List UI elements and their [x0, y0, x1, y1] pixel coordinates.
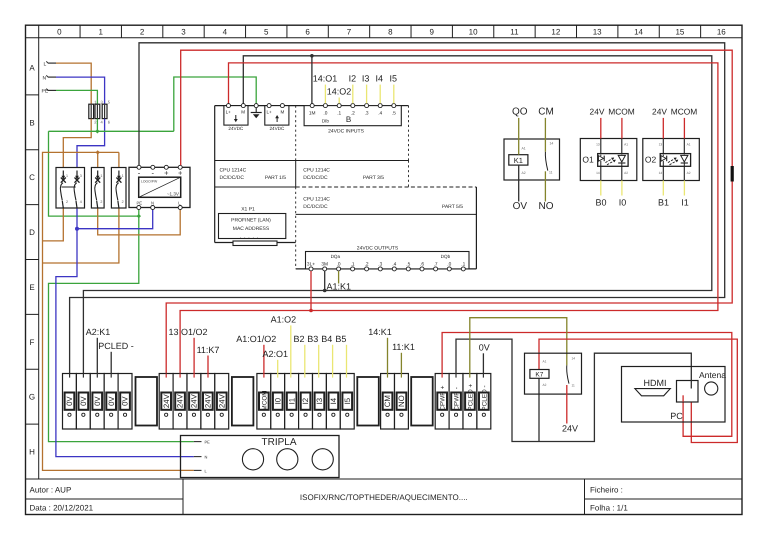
label 14:K1 with olive lead to CM terminal: [368, 327, 392, 374]
socket outlet 1: [242, 449, 263, 470]
terminal spacer: [232, 377, 254, 426]
wire blue down to TRIPLA N: [56, 229, 194, 457]
opto module O2: [643, 139, 700, 181]
svg-text:L: L: [44, 62, 47, 68]
wire brown bus to switches Q2 Q3 and left riser to TRIPLA L: [43, 152, 194, 470]
svg-text:24V: 24V: [176, 393, 185, 408]
label I4 with yellow stub: [375, 74, 383, 104]
svg-text:PART 3/5: PART 3/5: [363, 175, 384, 181]
svg-text:B: B: [346, 115, 351, 124]
wire N blue to fuse F3: [56, 77, 105, 104]
svg-text:MCOM: MCOM: [671, 107, 698, 117]
wire brown switch Q1 output to riser: [43, 208, 64, 241]
label NO with olive lead from K1 contact 11: [539, 171, 554, 212]
label QO with olive lead to K1 A1: [512, 107, 528, 155]
label MCOM with red lead to O2: [671, 107, 698, 139]
svg-text:DQa: DQa: [331, 254, 341, 259]
svg-text:14: 14: [634, 28, 643, 37]
svg-text:A2: A2: [624, 171, 628, 175]
wire red CPWR+ loop to PC connector: [442, 333, 732, 437]
junction blue: [75, 227, 79, 231]
svg-text:24V: 24V: [562, 424, 578, 434]
wire red PLC 3L+ drop to 24V rail: [310, 271, 312, 311]
svg-text:Autor : AUP: Autor : AUP: [30, 485, 72, 494]
socket outlet 3: [312, 449, 333, 470]
svg-text:8: 8: [388, 28, 393, 37]
node L input label: [44, 61, 57, 67]
label I3 with yellow stub: [362, 74, 370, 104]
label I2 with yellow stub: [349, 74, 357, 104]
opto module O1: [580, 139, 637, 181]
svg-text:13: 13: [659, 142, 663, 146]
wire red PSU plus loop to 24V terminal 1: [166, 50, 732, 373]
svg-text:4: 4: [80, 200, 82, 204]
svg-text:I5: I5: [389, 74, 397, 84]
wire L brown to fuse F1: [56, 63, 91, 104]
svg-text:PCLED -: PCLED -: [481, 385, 488, 410]
svg-text:16: 16: [717, 28, 726, 37]
svg-text:DC/DC/DC: DC/DC/DC: [303, 204, 328, 210]
svg-text:6: 6: [305, 28, 310, 37]
svg-text:B0: B0: [595, 198, 606, 208]
svg-text:A2: A2: [522, 171, 526, 175]
label B4 with yellow lead to I4 terminal: [321, 334, 332, 374]
svg-text:A2:K1: A2:K1: [86, 327, 111, 337]
node PE input label: [42, 89, 57, 95]
node N input label: [43, 75, 57, 81]
svg-text:B2: B2: [293, 334, 304, 344]
svg-text:PCLED +: PCLED +: [467, 384, 474, 411]
fuse F3: [102, 100, 111, 125]
svg-text:I4: I4: [329, 397, 338, 404]
svg-text:B1: B1: [658, 198, 669, 208]
svg-text:N: N: [205, 455, 208, 460]
svg-text:3: 3: [80, 174, 82, 178]
svg-text:14:O1: 14:O1: [313, 74, 338, 84]
label I0 with yellow lead from O1: [619, 181, 627, 208]
svg-text:OV: OV: [513, 201, 528, 212]
svg-text:15: 15: [675, 28, 684, 37]
svg-text:PE: PE: [205, 440, 211, 445]
svg-text:DIb: DIb: [322, 119, 330, 124]
svg-text:2: 2: [66, 200, 68, 204]
antenna circle: [705, 382, 718, 395]
svg-text:11:K7: 11:K7: [197, 345, 220, 355]
svg-text:11: 11: [572, 384, 576, 388]
svg-text:PC: PC: [670, 411, 683, 421]
wire brown F1 out to switch Q1 pole 1: [63, 119, 91, 168]
svg-text:TRIPLA: TRIPLA: [261, 437, 296, 448]
svg-text:14: 14: [572, 357, 576, 361]
svg-text:11: 11: [510, 28, 519, 37]
label B3 with yellow lead to I3 terminal: [307, 334, 318, 374]
label B2 with yellow lead to I2 terminal: [293, 334, 304, 374]
svg-text:A2:O1: A2:O1: [263, 349, 289, 359]
svg-text:B: B: [29, 118, 34, 127]
svg-text:PCLED -: PCLED -: [98, 341, 134, 351]
svg-text:L+: L+: [267, 110, 273, 115]
label OV with black lead from K1 A2: [513, 165, 528, 212]
svg-text:1M: 1M: [309, 111, 316, 117]
terminal spacer: [357, 377, 379, 426]
svg-text:.4: .4: [378, 111, 382, 117]
svg-text:.1: .1: [337, 111, 341, 117]
switch Q3 breaker: [111, 168, 126, 209]
svg-text:24V: 24V: [590, 107, 605, 117]
wire stubs into terminal tops: [70, 374, 484, 378]
svg-text:HDMI: HDMI: [644, 378, 667, 388]
svg-text:A1:K1: A1:K1: [327, 282, 352, 292]
svg-text:14:O2: 14:O2: [327, 87, 352, 97]
svg-text:A1: A1: [624, 142, 628, 146]
svg-text:G: G: [29, 393, 35, 402]
svg-text:0V: 0V: [79, 396, 88, 406]
svg-text:.3: .3: [365, 111, 369, 117]
row letter column A-H: [26, 38, 39, 479]
label MCOM with red lead to O1: [608, 107, 635, 139]
svg-text:MAC ADDRESS: MAC ADDRESS: [233, 226, 270, 232]
wire brown switch Q2 output to PSU L: [98, 208, 181, 235]
label I1 with yellow lead from O2: [681, 181, 689, 208]
svg-text:4: 4: [223, 28, 228, 37]
svg-text:2: 2: [100, 200, 102, 204]
wire olive DQa.0 stub A1:K1: [327, 271, 352, 292]
svg-text:MCOM: MCOM: [608, 107, 635, 117]
svg-text:N: N: [43, 76, 47, 82]
svg-text:D: D: [29, 228, 35, 237]
label A2:O1 with yellow lead to I0 terminal: [263, 349, 289, 374]
svg-text:24V: 24V: [203, 393, 212, 408]
svg-text:14: 14: [596, 171, 600, 175]
junction brown at switch Q2 feed: [96, 150, 100, 154]
svg-text:14:K1: 14:K1: [368, 327, 392, 337]
svg-text:14: 14: [659, 171, 663, 175]
svg-text:NO: NO: [539, 201, 554, 212]
terminal strip X5 PC power group: [435, 374, 491, 430]
svg-text:A1:O2: A1:O2: [271, 315, 297, 325]
label 13 O1/O2 with red lead to 24V terminal 3: [168, 327, 207, 374]
svg-text:K1: K1: [514, 156, 523, 165]
svg-text:ISOFIX/RNC/TOPTHEDER/AQUECIMEN: ISOFIX/RNC/TOPTHEDER/AQUECIMENTO....: [300, 493, 468, 502]
svg-text:.0: .0: [323, 111, 327, 117]
svg-text:I1: I1: [681, 198, 689, 208]
svg-text:Data : 20/12/2021: Data : 20/12/2021: [30, 503, 94, 512]
junction red 3L+: [309, 309, 313, 313]
svg-text:CPU 1214C: CPU 1214C: [220, 168, 247, 174]
wire black PSU minus loop to 0V terminal 1: [70, 43, 725, 374]
svg-text:CPWR -: CPWR -: [453, 387, 460, 410]
svg-text:I0: I0: [619, 198, 627, 208]
PLC 24VDC INPUTS terminal box: [304, 104, 401, 135]
svg-text:5: 5: [264, 28, 269, 37]
label 24V with red lead to O2: [652, 107, 667, 139]
terminal spacer: [411, 377, 433, 426]
label B1 with yellow lead from O2: [658, 181, 669, 208]
wire black PLC 3M drop to 0V rail: [324, 271, 326, 291]
svg-text:QO: QO: [512, 107, 528, 118]
junction green at fuse F2 output: [95, 129, 99, 133]
svg-text:X1 P1: X1 P1: [241, 207, 255, 213]
svg-text:H: H: [29, 448, 35, 457]
PLC U1 CPU 1214C outline: [215, 106, 477, 269]
label A2:K1 with lead to 0V terminal 3: [86, 327, 111, 374]
svg-text:12: 12: [551, 28, 560, 37]
relay K1: [504, 139, 560, 180]
svg-text:24VDC INPUTS: 24VDC INPUTS: [328, 129, 365, 135]
PLC 24VDC power feed box 1: [224, 104, 248, 131]
svg-text:I5: I5: [343, 397, 352, 404]
svg-text:CPU 1214C: CPU 1214C: [303, 168, 330, 174]
terminal strip X4 CM NO group: [381, 374, 409, 430]
svg-text:B5: B5: [335, 334, 346, 344]
svg-text:PROFINET (LAN): PROFINET (LAN): [231, 218, 271, 224]
svg-text:2: 2: [140, 28, 145, 37]
svg-text:I0: I0: [273, 397, 282, 404]
svg-text:1: 1: [100, 174, 102, 178]
svg-text:11:K1: 11:K1: [392, 342, 415, 352]
svg-text:C: C: [29, 173, 35, 182]
splice bar on red riser: [731, 166, 734, 182]
svg-text:I4: I4: [375, 74, 383, 84]
wire red K7 A1 loop to PC connector: [539, 339, 737, 442]
label I5 with yellow stub: [389, 74, 397, 104]
svg-text:+: +: [178, 168, 183, 177]
PLC CPU part 3/5 text: [303, 168, 384, 181]
svg-text:E: E: [29, 283, 34, 292]
label CM with olive lead to K1 contact 14: [538, 107, 554, 152]
svg-text:A2: A2: [687, 171, 691, 175]
svg-text:24VDC: 24VDC: [269, 126, 284, 131]
label PCLED - with lead to 0V terminal 4: [98, 341, 134, 374]
label 14:O2 with yellow stub to input .1: [327, 87, 352, 104]
label B5 with yellow lead to I5 terminal: [335, 334, 346, 374]
svg-text:O1: O1: [582, 155, 594, 165]
power supply U2 24VDC: [129, 165, 190, 209]
terminal strip X2 24V group: [159, 374, 229, 430]
svg-text:24VDC OUTPUTS: 24VDC OUTPUTS: [357, 246, 399, 252]
socket outlet 2: [277, 449, 298, 470]
svg-text:DC/DC/DC: DC/DC/DC: [220, 175, 245, 181]
svg-text:PART 5/5: PART 5/5: [442, 204, 463, 210]
svg-text:MCOM: MCOM: [261, 390, 268, 410]
TRIPLA socket box: [181, 436, 340, 478]
wire blue F3 out to switch Q1 pole 3: [77, 119, 105, 168]
svg-text:CPWR +: CPWR +: [440, 385, 447, 410]
svg-text:13: 13: [593, 28, 602, 37]
fuse F1: [89, 100, 98, 125]
label 0V with black lead to PCLED - terminal: [479, 343, 490, 374]
svg-text:10: 10: [469, 28, 478, 37]
relay K7: [525, 353, 582, 394]
label B0 with yellow lead from O1: [595, 181, 606, 208]
svg-text:A1: A1: [543, 360, 547, 364]
svg-text:13 O1/O2: 13 O1/O2: [168, 327, 207, 337]
PLC PROFINET LAN port X1 P1: [219, 207, 286, 246]
wire olive PCLED+ loop to K7 contact 14: [470, 318, 567, 374]
PC box with HDMI and antenna: [622, 367, 727, 423]
svg-text:7: 7: [347, 28, 352, 37]
label 11:K7 with red lead to 24V terminal 4: [197, 345, 220, 374]
label 24V with red lead to O1: [590, 107, 605, 139]
svg-text:M: M: [281, 110, 285, 115]
label 24V with red lead to K7 contact 11: [562, 385, 578, 434]
PLC CPU part 5/5 text: [303, 197, 463, 210]
svg-text:LOGO!PW: LOGO!PW: [141, 179, 158, 183]
terminal strip X3 inputs group: [257, 374, 354, 430]
svg-text:DC/DC/DC: DC/DC/DC: [303, 175, 328, 181]
svg-text:A1:O1/O2: A1:O1/O2: [236, 334, 276, 344]
svg-text:+: +: [164, 168, 169, 177]
svg-text:M: M: [241, 110, 245, 115]
terminal spacer: [136, 377, 158, 426]
wire brown drop to switch Q3: [118, 152, 120, 167]
svg-text:Antena: Antena: [699, 370, 726, 380]
svg-text:CM: CM: [538, 107, 554, 118]
svg-text:.2: .2: [351, 111, 355, 117]
svg-text:24V: 24V: [217, 393, 226, 408]
svg-text:~1.3V: ~1.3V: [167, 192, 180, 197]
svg-text:I3: I3: [315, 398, 324, 405]
svg-text:24VDC: 24VDC: [228, 126, 243, 131]
svg-text:L+: L+: [226, 110, 232, 115]
svg-text:PE: PE: [137, 201, 143, 206]
wire green left leg down to PSU PE: [49, 131, 139, 216]
wire black CPWR- to K7 rail and PC connector: [456, 339, 691, 441]
fuse F2: [95, 100, 104, 125]
wire green PSU PE terminal drop: [138, 210, 140, 217]
wire black PLC M loop to 0V terminal 2: [83, 56, 711, 374]
switch Q2 breaker: [91, 168, 104, 209]
svg-text:14: 14: [550, 142, 554, 146]
svg-text:B3: B3: [307, 334, 318, 344]
svg-text:13: 13: [596, 142, 600, 146]
svg-text:0V: 0V: [479, 343, 490, 353]
svg-text:11: 11: [549, 171, 553, 175]
svg-text:PART 1/5: PART 1/5: [265, 175, 286, 181]
svg-text:1: 1: [122, 174, 124, 178]
svg-text:24V: 24V: [652, 107, 667, 117]
svg-text:.5: .5: [392, 111, 396, 117]
svg-text:K7: K7: [535, 372, 543, 379]
svg-text:24V: 24V: [162, 393, 171, 408]
PLC 24VDC OUTPUTS terminal box: [306, 246, 470, 271]
wire brown drop to switch Q2: [97, 152, 99, 167]
svg-text:CPU 1214C: CPU 1214C: [303, 197, 330, 203]
wire green PE bus under fuses: [96, 119, 98, 132]
svg-text:CM: CM: [383, 395, 392, 407]
svg-text:Ficheiro :: Ficheiro :: [590, 485, 623, 494]
svg-text:0V: 0V: [65, 396, 74, 406]
svg-text:0: 0: [57, 28, 62, 37]
svg-text:N: N: [151, 201, 154, 206]
terminal strip X1 0V group: [63, 374, 133, 430]
PC power connector: [677, 381, 699, 403]
svg-text:I2: I2: [301, 398, 310, 405]
label 14:O1 with yellow stub to input .0: [313, 74, 338, 104]
wire black K7 A2 drop to rail: [538, 378, 540, 441]
svg-text:I3: I3: [362, 74, 370, 84]
svg-text:0V: 0V: [121, 396, 130, 406]
PLC 24VDC power feed box 2: [265, 104, 289, 131]
svg-text:1: 1: [66, 174, 68, 178]
svg-text:I2: I2: [349, 74, 357, 84]
column header band with numbers 0-16: [26, 25, 743, 38]
svg-text:A: A: [29, 63, 35, 72]
label A1:O1/O2 with red lead to MCOM terminal: [236, 334, 276, 374]
svg-text:I1: I1: [287, 398, 296, 405]
svg-text:NO: NO: [397, 395, 406, 407]
svg-text:Folha : 1/1: Folha : 1/1: [590, 503, 628, 512]
svg-text:_._._._._._: _._._._._._: [236, 234, 261, 240]
svg-text:2: 2: [122, 200, 124, 204]
svg-text:A1: A1: [522, 147, 526, 151]
title block: [26, 479, 743, 515]
svg-text:F: F: [30, 338, 35, 347]
svg-text:9: 9: [429, 28, 434, 37]
svg-text:0V: 0V: [107, 396, 116, 406]
svg-text:0V: 0V: [93, 396, 102, 406]
svg-text:24V: 24V: [190, 393, 199, 408]
wire green down-left to TRIPLA PE: [49, 216, 194, 442]
svg-text:DQb: DQb: [441, 254, 451, 259]
svg-text:1: 1: [99, 28, 104, 37]
wire green riser to PLC ground: [174, 77, 256, 131]
svg-text:A1: A1: [687, 142, 691, 146]
junction black 3M: [323, 289, 327, 293]
wire red PLC L+ loop to 24V terminal 2: [180, 63, 718, 374]
PLC CPU part 1/5 text: [220, 168, 287, 181]
svg-text:A2: A2: [543, 383, 547, 387]
wire black 1M drop to PLC input: [311, 56, 313, 106]
label A1:O2 with yellow lead to I1 terminal: [271, 315, 297, 374]
junction green under PSU: [137, 214, 141, 218]
svg-text:3: 3: [181, 28, 186, 37]
svg-text:B4: B4: [321, 334, 332, 344]
wire PE green to fuse F2: [56, 90, 97, 104]
label 11:K1 with olive lead to NO terminal: [392, 342, 415, 374]
switch Q1 two-pole breaker: [56, 168, 85, 209]
svg-text:O2: O2: [645, 155, 657, 165]
wire brown switch Q3 output to riser: [43, 208, 119, 263]
wire blue switch Q1 pole out to PSU N: [77, 208, 153, 229]
junction black 1M tap: [310, 54, 314, 58]
ground symbol at PLC: [251, 104, 262, 119]
